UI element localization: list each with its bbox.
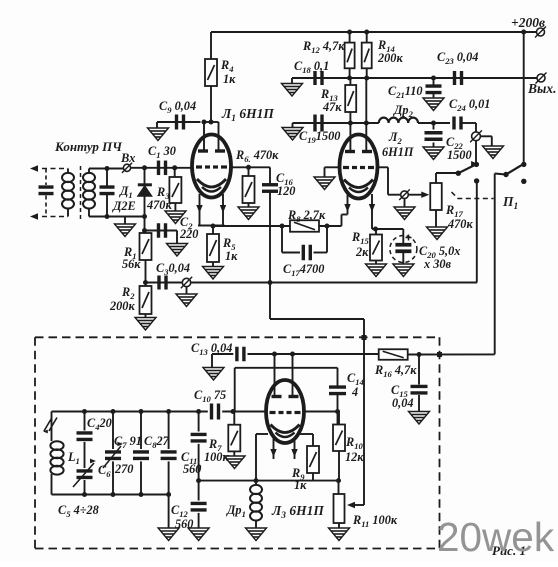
svg-text:C1 30: C1 30 bbox=[148, 144, 176, 160]
svg-text:100к: 100к bbox=[204, 450, 229, 464]
svg-text:0,04: 0,04 bbox=[392, 396, 414, 410]
svg-text:R8 2,7к: R8 2,7к bbox=[287, 208, 326, 224]
svg-text:120: 120 bbox=[277, 184, 295, 198]
svg-text:200к: 200к bbox=[109, 299, 135, 313]
svg-text:R6. 470к: R6. 470к bbox=[235, 148, 279, 164]
svg-text:+200в: +200в bbox=[511, 15, 545, 30]
svg-text:20wek: 20wek bbox=[437, 514, 555, 560]
svg-text:C30,04: C30,04 bbox=[156, 261, 190, 277]
svg-text:470к: 470к bbox=[146, 198, 172, 212]
svg-text:270: 270 bbox=[114, 462, 133, 476]
svg-text:Вх: Вх bbox=[120, 151, 135, 165]
svg-text:12к: 12к bbox=[345, 450, 364, 464]
svg-text:C13 0,04: C13 0,04 bbox=[191, 341, 232, 357]
svg-text:х 30в: х 30в bbox=[423, 257, 452, 271]
svg-text:6Н1П: 6Н1П bbox=[382, 145, 414, 159]
svg-text:200к: 200к bbox=[377, 51, 403, 65]
svg-text:C420: C420 bbox=[87, 416, 112, 432]
svg-text:1к: 1к bbox=[294, 478, 307, 492]
svg-text:1500: 1500 bbox=[447, 148, 472, 162]
svg-text:C9 0,04: C9 0,04 bbox=[159, 99, 196, 115]
svg-text:2к: 2к bbox=[355, 245, 369, 259]
svg-text:C10 75: C10 75 bbox=[194, 388, 226, 404]
svg-text:C24 0,01: C24 0,01 bbox=[449, 97, 490, 113]
svg-text:C21110: C21110 bbox=[388, 84, 423, 100]
svg-text:Д2Е: Д2Е bbox=[112, 199, 136, 213]
svg-text:220: 220 bbox=[179, 227, 198, 241]
svg-text:C5 4÷28: C5 4÷28 bbox=[58, 503, 99, 519]
svg-text:R12 4,7к: R12 4,7к bbox=[302, 39, 345, 55]
svg-text:C7 91: C7 91 bbox=[114, 434, 142, 450]
svg-text:R16 4,7к: R16 4,7к bbox=[374, 363, 417, 379]
svg-text:47к: 47к bbox=[322, 100, 342, 114]
svg-text:1к: 1к bbox=[223, 72, 236, 86]
svg-text:560: 560 bbox=[175, 517, 193, 531]
svg-text:C23 0,04: C23 0,04 bbox=[437, 50, 478, 66]
svg-text:470к: 470к bbox=[447, 217, 473, 231]
svg-text:56к: 56к bbox=[122, 257, 141, 271]
svg-text:C174700: C174700 bbox=[283, 262, 324, 278]
svg-text:C191500: C191500 bbox=[299, 129, 340, 145]
svg-text:R11 100к: R11 100к bbox=[352, 513, 398, 529]
svg-text:C18 0,1: C18 0,1 bbox=[294, 59, 329, 75]
svg-text:Вых.: Вых. bbox=[527, 81, 557, 96]
svg-text:1к: 1к bbox=[225, 249, 238, 263]
svg-text:560: 560 bbox=[183, 462, 201, 476]
svg-text:4: 4 bbox=[351, 385, 358, 399]
svg-text:C827: C827 bbox=[144, 434, 170, 450]
svg-text:Контур ПЧ: Контур ПЧ bbox=[54, 139, 123, 154]
